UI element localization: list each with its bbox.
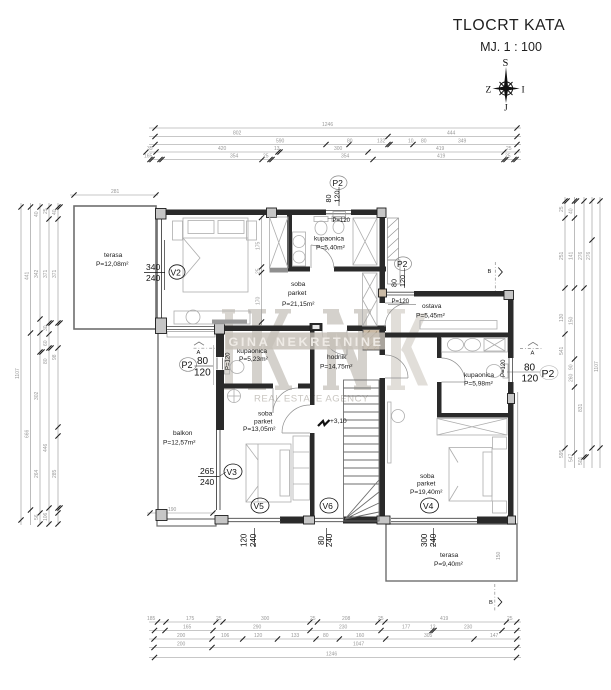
svg-text:Z: Z: [486, 86, 492, 96]
svg-text:V3: V3: [227, 467, 238, 477]
svg-text:354: 354: [230, 154, 239, 160]
window P=120 balkon-kupaonica523: [215, 357, 225, 370]
svg-text:185: 185: [147, 616, 156, 622]
ostava bottom wall / kupaonica598 top: [385, 333, 513, 338]
door hodnik top (gap): [322, 325, 347, 333]
furniture: soba1305 bed: [246, 444, 291, 502]
right wall top block: [380, 214, 386, 303]
kupaonica54 bottom wall: [287, 267, 310, 272]
svg-text:25: 25: [559, 206, 565, 212]
balkon left edge: [157, 330, 159, 520]
svg-text:P2: P2: [333, 178, 344, 188]
svg-text:120: 120: [194, 368, 211, 379]
stairs: [344, 380, 380, 521]
svg-text:200: 200: [177, 642, 186, 648]
top dim line 1 (1246): [149, 122, 521, 131]
svg-text:TLOCRT KATA: TLOCRT KATA: [453, 17, 566, 34]
pier bottom-right: [508, 516, 516, 524]
svg-text:I: I: [522, 86, 525, 96]
svg-text:595: 595: [559, 449, 565, 458]
furniture: soba1940 closet: [437, 419, 507, 436]
svg-text:170: 170: [256, 296, 262, 305]
furniture: kupaonica598 counter: [442, 338, 508, 353]
right dim line 3: [578, 197, 589, 468]
svg-text:B: B: [488, 269, 492, 275]
door kupaonica523: [273, 388, 298, 413]
svg-text:80: 80: [197, 356, 209, 367]
right dim line 2: [569, 197, 580, 468]
right dim line 1: [559, 197, 570, 468]
svg-text:80: 80: [347, 139, 353, 145]
furniture: bedroom V2 bed: [173, 218, 257, 292]
ostava top wall: [386, 291, 513, 297]
furniture: soba1940 bed: [449, 437, 507, 513]
svg-text:P2: P2: [397, 259, 408, 269]
svg-text:P=120: P=120: [501, 359, 507, 377]
svg-text:240: 240: [146, 273, 160, 283]
window V4: [391, 517, 477, 519]
window P2 top (gap): [326, 209, 351, 217]
section mark B top: [488, 262, 503, 291]
left dim line 4: [43, 203, 54, 527]
column top-left: [156, 209, 167, 220]
svg-text:240: 240: [200, 477, 214, 487]
svg-text:1107: 1107: [15, 368, 21, 379]
svg-text:285: 285: [52, 469, 58, 478]
top exterior wall: [156, 210, 386, 216]
svg-text:kupaonica: kupaonica: [314, 236, 344, 243]
column right wall mid: [508, 394, 515, 404]
chimney hatch right of top block: [388, 218, 401, 284]
svg-text:terasa: terasa: [104, 252, 123, 259]
svg-text:419: 419: [437, 154, 446, 160]
door soba1305: [282, 405, 310, 433]
furniture: kupaonica523 toilet: [225, 360, 245, 374]
svg-text:P=9,40m²: P=9,40m²: [434, 561, 464, 568]
svg-text:300: 300: [420, 533, 429, 547]
svg-text:P2: P2: [542, 368, 555, 380]
svg-text:133: 133: [291, 633, 300, 639]
svg-text:305: 305: [424, 633, 433, 639]
svg-text:P=120: P=120: [333, 218, 351, 224]
svg-text:V6: V6: [323, 501, 334, 511]
window P=120 ostava (gap): [386, 290, 414, 298]
left dim line 5: [52, 203, 63, 527]
svg-text:80: 80: [43, 358, 49, 364]
section mark B bottom: [489, 584, 502, 612]
svg-text:98: 98: [52, 354, 58, 360]
eave line right: [517, 392, 519, 524]
right exterior wall of right block: [508, 291, 514, 517]
watermark letter K: [248, 309, 292, 390]
furniture: wardrobe V2: [270, 217, 289, 273]
bottom dim line 5: [149, 652, 521, 661]
svg-text:349: 349: [458, 139, 467, 145]
svg-text:165: 165: [183, 625, 192, 631]
watermark letter N partial left: [222, 309, 235, 390]
terasa bottom-right outline: [386, 524, 517, 581]
furniture: sink circle soba1305 corner: [228, 390, 241, 403]
plan group: [70, 176, 558, 612]
svg-text:B: B: [489, 600, 493, 606]
svg-text:25: 25: [216, 616, 222, 622]
svg-text:230: 230: [339, 625, 348, 631]
svg-text:106: 106: [221, 633, 230, 639]
column mid A: [215, 324, 225, 335]
svg-text:P=21,15m²: P=21,15m²: [282, 301, 315, 308]
svg-text:547: 547: [569, 453, 575, 462]
svg-text:90: 90: [569, 364, 575, 370]
svg-text:25: 25: [263, 154, 269, 160]
terasa top-left outline: [74, 206, 156, 329]
furniture: soba2115 closet right: [363, 273, 378, 326]
section mark A right: [520, 342, 543, 356]
svg-text:balkon: balkon: [173, 430, 193, 437]
svg-text:354: 354: [341, 154, 350, 160]
svg-text:300: 300: [334, 146, 343, 152]
door soba1940: [385, 355, 408, 378]
column top-right: [377, 208, 386, 218]
svg-text:25: 25: [506, 146, 512, 152]
chimney hatched block hodnik: [363, 330, 380, 351]
svg-text:P=12,57m²: P=12,57m²: [163, 440, 196, 447]
top dim line 4: [143, 146, 521, 155]
P2 label left-mid: [180, 352, 232, 379]
svg-text:190: 190: [168, 507, 177, 513]
svg-text:40: 40: [34, 211, 40, 217]
svg-text:soba: soba: [258, 411, 273, 418]
svg-text:P=5,45m²: P=5,45m²: [416, 313, 446, 320]
svg-text:160: 160: [356, 633, 365, 639]
svg-text:V4: V4: [423, 501, 434, 511]
svg-text:P=14,75m²: P=14,75m²: [320, 364, 353, 371]
svg-text:1047: 1047: [353, 642, 364, 648]
window V6: [315, 517, 343, 519]
bottom dim line 1: [147, 616, 521, 625]
kupaonica598 bottom wall: [437, 413, 508, 418]
pier V5 left: [215, 516, 228, 525]
door ostava: [385, 303, 409, 327]
furniture: kupaonica598 toilet: [487, 364, 509, 378]
svg-text:56: 56: [34, 514, 40, 520]
svg-text:300: 300: [261, 616, 270, 622]
svg-text:10: 10: [408, 139, 414, 145]
svg-text:290: 290: [253, 625, 262, 631]
svg-text:P=13,05m²: P=13,05m²: [243, 426, 276, 433]
svg-text:25: 25: [378, 616, 384, 622]
P2 label top: [324, 176, 351, 224]
dim 281 above terasa: [70, 189, 159, 198]
wall soba1305/hodnik: [310, 331, 315, 405]
svg-text:371: 371: [52, 269, 58, 278]
column top-mid: [267, 208, 277, 218]
svg-text:106: 106: [43, 512, 49, 521]
column ostava right: [504, 291, 514, 300]
V4 label: [420, 498, 439, 547]
bottom dim line 2: [149, 625, 521, 634]
bottom dim line 4: [149, 642, 521, 651]
column left-mid tall: [156, 318, 167, 334]
furniture: kupaonica540 shower: [353, 218, 377, 265]
svg-text:1246: 1246: [326, 652, 337, 658]
svg-text:132: 132: [377, 139, 386, 145]
dim 190 in balkon: [147, 507, 216, 516]
furniture: soba1305 closet: [293, 436, 310, 500]
left dim line 1: [15, 203, 24, 525]
svg-text:30: 30: [43, 325, 49, 331]
svg-text:200: 200: [177, 633, 186, 639]
balkon bottom wall: [157, 519, 216, 526]
svg-text:802: 802: [233, 131, 242, 137]
column ostava left (tan): [379, 289, 387, 297]
svg-text:80: 80: [421, 139, 427, 145]
left dim line 2: [25, 203, 34, 525]
furniture: kupaonica540 sinks: [293, 232, 306, 266]
svg-text:1107: 1107: [594, 361, 600, 372]
svg-text:40: 40: [52, 209, 58, 215]
svg-text:120: 120: [254, 633, 263, 639]
top dim line 2 (802/444): [149, 131, 521, 140]
svg-text:165: 165: [144, 154, 153, 160]
svg-text:302: 302: [34, 391, 40, 400]
svg-text:P=5,23m²: P=5,23m²: [239, 356, 269, 363]
svg-text:S: S: [503, 58, 509, 69]
svg-text:120: 120: [333, 191, 342, 203]
pier hodnik top: [310, 324, 322, 331]
svg-text:P=120: P=120: [226, 352, 232, 370]
svg-text:V2: V2: [171, 268, 182, 278]
svg-text:501: 501: [578, 456, 584, 465]
svg-text:120: 120: [240, 533, 249, 547]
watermark letter K faint right: [387, 309, 428, 390]
svg-text:40: 40: [569, 208, 575, 214]
svg-text:soba: soba: [291, 281, 306, 288]
svg-text:441: 441: [25, 271, 31, 280]
svg-text:25: 25: [507, 616, 513, 622]
svg-text:A: A: [531, 351, 535, 357]
svg-text:251: 251: [559, 251, 565, 260]
pier balkon bottom-left: [156, 510, 167, 521]
window sill band P2 left: [167, 332, 215, 338]
svg-text:GINA NEKRETNINE: GINA NEKRETNINE: [229, 335, 384, 349]
svg-text:25: 25: [310, 616, 316, 622]
V3 label + fraction: [198, 464, 242, 487]
watermark group: [222, 309, 428, 405]
top dim line 3: [149, 139, 521, 148]
svg-text:281: 281: [111, 189, 120, 195]
titleblock: [453, 17, 566, 114]
svg-text:831: 831: [578, 403, 584, 412]
svg-text:175: 175: [186, 616, 195, 622]
P2 label right-mid: [501, 359, 558, 385]
V6 label: [317, 498, 338, 547]
svg-text:120: 120: [522, 374, 539, 385]
pier V5 right gray: [304, 516, 315, 524]
svg-text:soba: soba: [420, 473, 435, 480]
door kupaonica54: [311, 245, 334, 268]
section mark A left: [194, 342, 216, 356]
left exterior wall V2 window (double thin lines): [156, 214, 158, 320]
svg-text:130: 130: [559, 313, 565, 322]
svg-text:P=5,98m²: P=5,98m²: [464, 381, 494, 388]
V5 label: [240, 498, 270, 547]
svg-text:J: J: [504, 104, 508, 114]
left dim line 3: [34, 203, 45, 527]
svg-text:ostava: ostava: [422, 303, 442, 310]
watermark letter N: [323, 309, 371, 390]
svg-text:MJ. 1 : 100: MJ. 1 : 100: [480, 40, 542, 54]
right dim line 5: [594, 197, 603, 468]
svg-text:446: 446: [43, 443, 49, 452]
V2 label + fraction: [144, 262, 185, 283]
svg-text:P=5,40m²: P=5,40m²: [316, 245, 346, 252]
window P=120 kupaonica598 (gap): [507, 358, 515, 382]
svg-text:177: 177: [402, 625, 411, 631]
P2 label right-top: [388, 257, 416, 305]
svg-text:147: 147: [490, 633, 499, 639]
svg-text:260: 260: [569, 373, 575, 382]
furniture: kupaonica540 toilets: [314, 217, 345, 236]
top dim line 5: [144, 154, 521, 163]
furniture: shelf line soba1940: [388, 402, 392, 463]
window V5: [228, 517, 281, 519]
svg-text:kupaonica: kupaonica: [464, 372, 494, 379]
window P2 left (gap onto balkon): [167, 325, 215, 333]
svg-text:150: 150: [569, 316, 575, 325]
svg-text:P=12,08m²: P=12,08m²: [96, 261, 129, 268]
svg-text:120: 120: [398, 275, 407, 287]
svg-text:12: 12: [430, 625, 436, 631]
svg-text:25: 25: [505, 154, 511, 160]
wall balkon/soba1305 vertical: [216, 331, 224, 357]
svg-text:terasa: terasa: [440, 552, 459, 559]
svg-text:276: 276: [586, 251, 592, 260]
svg-text:25: 25: [256, 268, 262, 274]
svg-text:208: 208: [342, 616, 351, 622]
svg-text:60: 60: [43, 340, 49, 346]
svg-text:parket: parket: [288, 290, 306, 297]
columns (gray blocks): [156, 208, 516, 524]
svg-text:1246: 1246: [322, 122, 333, 128]
svg-text:419: 419: [440, 616, 449, 622]
door kupaonica598: [442, 358, 466, 382]
svg-text:35: 35: [147, 146, 153, 152]
svg-text:P=120: P=120: [392, 299, 410, 305]
right dim line 4: [586, 197, 595, 468]
svg-text:P=19,40m²: P=19,40m²: [410, 489, 443, 496]
svg-text:parket: parket: [417, 481, 435, 488]
svg-text:541: 541: [559, 346, 565, 355]
svg-text:+3,10: +3,10: [330, 418, 347, 425]
svg-text:371: 371: [43, 269, 49, 278]
watermark band overlay: [226, 333, 386, 350]
svg-text:hodnik: hodnik: [327, 354, 347, 361]
furniture: bedroom chair + desk: [174, 310, 250, 324]
svg-text:265: 265: [200, 466, 214, 476]
svg-text:25: 25: [43, 208, 49, 214]
furniture: ostava shelf: [420, 321, 497, 330]
svg-text:264: 264: [34, 469, 40, 478]
bottom dim line 3: [149, 633, 521, 642]
pier stairs bottom: [377, 516, 390, 524]
mid wall y326: [166, 326, 386, 332]
svg-text:V5: V5: [254, 501, 265, 511]
svg-text:13: 13: [274, 146, 280, 152]
wall bedroom/kupaonica54: [287, 214, 292, 269]
svg-text:parket: parket: [254, 419, 272, 426]
svg-text:80: 80: [323, 633, 329, 639]
svg-text:590: 590: [276, 139, 285, 145]
kupaonica598 left wall: [437, 337, 442, 358]
dims group: [15, 122, 603, 660]
svg-text:342: 342: [34, 269, 40, 278]
compass rose: [493, 67, 520, 103]
svg-text:175: 175: [256, 241, 262, 250]
furniture: plant circle soba1940: [392, 410, 405, 423]
svg-text:444: 444: [447, 131, 456, 137]
svg-text:666: 666: [25, 429, 31, 438]
svg-text:240: 240: [249, 533, 258, 547]
kupaonica523 bottom wall: [224, 384, 273, 389]
svg-text:230: 230: [464, 625, 473, 631]
svg-text:141: 141: [569, 251, 575, 260]
svg-text:340: 340: [146, 262, 160, 272]
svg-text:420: 420: [218, 146, 227, 152]
V3 sliding door thin lines: [216, 430, 218, 510]
level mark +3,10: [318, 418, 347, 426]
internal dim line bedroom: [256, 215, 265, 326]
svg-text:276: 276: [578, 251, 584, 260]
svg-text:419: 419: [436, 146, 445, 152]
svg-text:150: 150: [496, 551, 502, 560]
svg-text:P2: P2: [182, 360, 193, 370]
